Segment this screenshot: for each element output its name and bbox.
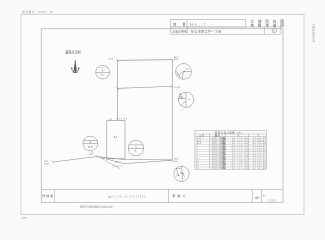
road boundary lower line bbox=[97, 157, 172, 164]
svg-text:平成16年5942号: 平成16年5942号 bbox=[312, 24, 316, 43]
svg-text:図: 図 bbox=[280, 24, 284, 28]
table row 12 bbox=[196, 161, 266, 165]
boundary point ticks bbox=[52, 155, 174, 163]
table row 14 bbox=[196, 166, 266, 170]
drainage stub line bbox=[100, 158, 120, 169]
corner tick marks bbox=[116, 59, 174, 90]
parcel boundary vertical line B bbox=[171, 60, 173, 161]
table row lines bbox=[195, 139, 267, 167]
document type header kanji 土地所在図/地積測量図 bbox=[250, 18, 284, 27]
detail balloon left bbox=[83, 136, 98, 151]
svg-text:測: 測 bbox=[265, 23, 269, 28]
svg-text:21.59: 21.59 bbox=[175, 87, 181, 89]
svg-text:縮尺 1/M ×2 1/4 1/250: 縮尺 1/M ×2 1/4 1/250 bbox=[108, 194, 146, 198]
page sheet bbox=[21, 14, 304, 214]
title block row2 (土地の所在) bbox=[171, 27, 281, 34]
bottom band boxes bbox=[41, 190, 283, 203]
svg-text:松山市南江戸一丁目: 松山市南江戸一丁目 bbox=[191, 29, 221, 34]
table row 8 bbox=[196, 151, 266, 155]
table row 10 bbox=[196, 156, 266, 160]
parcel boundary top horizontal line bbox=[117, 59, 172, 62]
title block row1 (地番) bbox=[171, 19, 246, 27]
svg-text:39.88: 39.88 bbox=[119, 119, 128, 121]
parcel boundary vertical line A bbox=[116, 60, 118, 120]
svg-text:量: 量 bbox=[273, 23, 277, 28]
selection circle mark bbox=[272, 28, 277, 33]
svg-text:土地の所在: 土地の所在 bbox=[172, 28, 187, 33]
svg-text:作 成 者: 作 成 者 bbox=[42, 193, 53, 198]
svg-text:基準点凡例: 基準点凡例 bbox=[65, 50, 81, 55]
svg-text:-80 116.43: -80 116.43 bbox=[231, 168, 249, 170]
svg-text:035: 035 bbox=[22, 216, 27, 220]
svg-text:-34 557.62: -34 557.62 bbox=[252, 168, 267, 170]
svg-text:21.59: 21.59 bbox=[179, 98, 183, 100]
legend circle (3級基準点) bbox=[96, 65, 110, 79]
svg-text:点 名: 点 名 bbox=[199, 133, 205, 137]
north arrow bbox=[71, 60, 79, 73]
detail balloon bottom-center bbox=[128, 140, 144, 156]
svg-text:種 別: 種 別 bbox=[215, 133, 221, 137]
table row 11 bbox=[196, 159, 266, 163]
svg-text:1.20: 1.20 bbox=[108, 118, 112, 120]
svg-text:受付番号：5960／18: 受付番号：5960／18 bbox=[22, 10, 53, 14]
rectangle top junction tick bbox=[116, 118, 118, 120]
svg-text:愛媛県土地家屋調査士会松山支部: 愛媛県土地家屋調査士会松山支部 bbox=[80, 204, 114, 208]
table data rows bbox=[196, 136, 266, 170]
coordinate table bbox=[195, 130, 267, 169]
table row 6 bbox=[196, 146, 266, 150]
detail balloon middle-right bbox=[178, 92, 193, 107]
svg-text:39-5 ，-7: 39-5 ，-7 bbox=[189, 23, 206, 27]
table row W5-1 bbox=[196, 136, 266, 140]
table row W5-3 bbox=[196, 141, 266, 145]
detail balloon top-right bbox=[176, 64, 192, 80]
detail balloon bottom-right bbox=[174, 166, 189, 181]
inner drawing frame bbox=[41, 29, 283, 203]
svg-text:0.45: 0.45 bbox=[89, 154, 93, 156]
svg-text:250: 250 bbox=[268, 199, 276, 203]
svg-text:50.00: 50.00 bbox=[174, 59, 179, 61]
road boundary upper line bbox=[53, 157, 172, 163]
table row 9 bbox=[196, 154, 266, 158]
parcel 39-5 rectangle bbox=[107, 121, 125, 159]
table row 7 bbox=[196, 149, 266, 153]
svg-text:申 請 人: 申 請 人 bbox=[172, 193, 185, 198]
table row 5 bbox=[196, 143, 266, 147]
table row 13 bbox=[196, 164, 266, 168]
svg-text:地: 地 bbox=[250, 23, 254, 28]
parcel boundary middle horizontal line bbox=[117, 86, 172, 88]
svg-text:積: 積 bbox=[258, 23, 262, 28]
svg-text:39-8: 39-8 bbox=[180, 173, 184, 175]
svg-text:1 /: 1 / bbox=[263, 193, 266, 197]
table row W5-2 bbox=[196, 138, 266, 142]
